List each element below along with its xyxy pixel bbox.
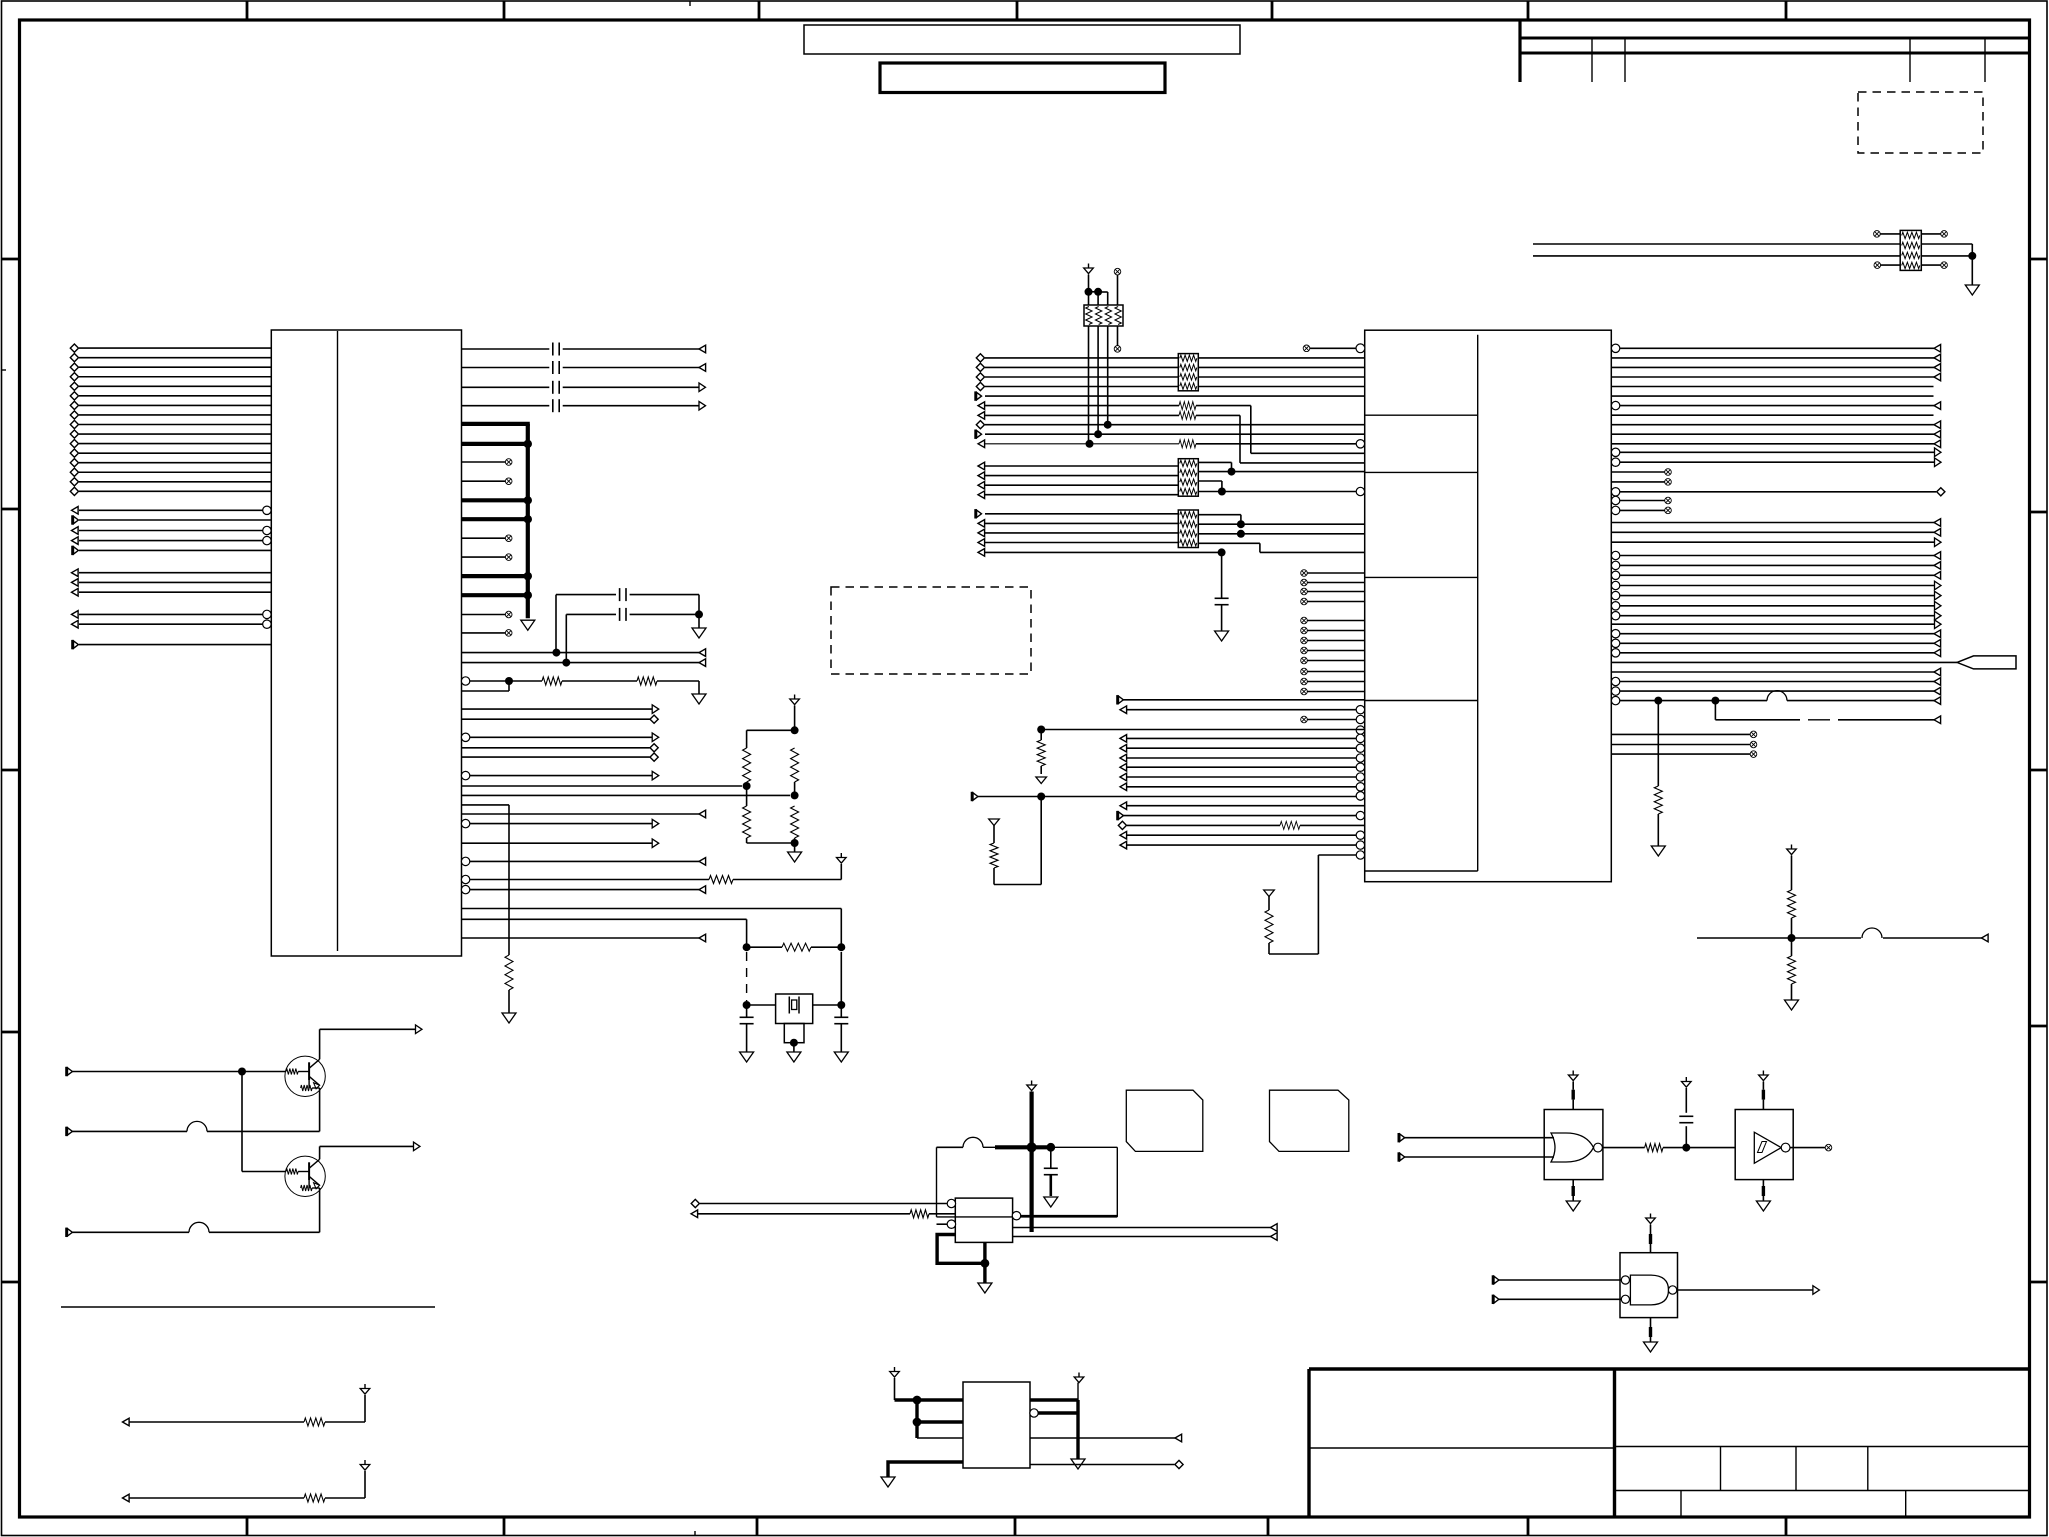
pin terminal bbox=[72, 611, 79, 619]
power pin stub thick bbox=[462, 574, 530, 578]
wire pull up bbox=[364, 1471, 366, 1498]
junction bbox=[1682, 1144, 1690, 1152]
ground arrow bbox=[502, 1013, 516, 1023]
inverting pin bubble bbox=[263, 506, 271, 514]
title block TR hline 1 bbox=[1520, 37, 2030, 40]
junction bbox=[743, 943, 751, 951]
net tag pennant bbox=[1957, 656, 2016, 669]
wire U1 left pin bbox=[79, 395, 271, 397]
ground bbox=[692, 628, 706, 638]
wire U1 right pin bbox=[462, 480, 506, 482]
power arrow bbox=[890, 1367, 900, 1377]
wire U2 bus row bbox=[985, 475, 1178, 477]
pin terminal bbox=[72, 507, 79, 515]
wire term bottom bbox=[747, 842, 795, 844]
title block bot v1 bbox=[1680, 1491, 1682, 1518]
pin terminal bbox=[978, 549, 985, 557]
IC U2 section divider bbox=[1365, 414, 1478, 416]
resistor bbox=[743, 748, 751, 782]
wire dogleg right b bbox=[1838, 719, 1941, 721]
pin terminal diamond bbox=[70, 344, 78, 352]
capacitor load bbox=[740, 1017, 754, 1023]
pin terminal bbox=[1982, 934, 1989, 942]
power bus thick h bbox=[995, 1145, 1053, 1149]
wire U1 right pin bbox=[462, 556, 506, 558]
junction bbox=[1037, 793, 1045, 801]
inverting pin bubble bbox=[1356, 344, 1365, 353]
resistor bbox=[1265, 910, 1273, 943]
wire u3 in1 bbox=[700, 1203, 952, 1205]
wire rp4 o4 bbox=[1198, 542, 1260, 544]
junction bbox=[743, 1001, 751, 1009]
power arrow bbox=[1084, 264, 1094, 274]
wire U1 left pin bbox=[79, 366, 271, 368]
net arrow down bbox=[1036, 777, 1047, 784]
wire U1 left pin bbox=[79, 572, 271, 574]
wire U2 right long bbox=[1620, 451, 1935, 453]
IC U2 box bbox=[1365, 330, 1612, 882]
resistor feedback bbox=[782, 943, 811, 951]
junction bbox=[1237, 530, 1245, 538]
wire U1 left pin bbox=[79, 540, 267, 542]
junction bbox=[1711, 697, 1719, 705]
wire U2 bus row bbox=[985, 484, 1178, 486]
pin terminal bbox=[691, 1210, 698, 1218]
wire U2 bl pin bbox=[1127, 844, 1357, 846]
capacitor load bbox=[834, 1017, 848, 1023]
pin terminal diamond bbox=[70, 487, 78, 495]
wire rp5 p1 bbox=[1880, 233, 1900, 235]
pin terminal bbox=[1120, 754, 1127, 762]
wire U2 bus row b bbox=[1198, 386, 1364, 388]
wire rp4 o3 bbox=[1198, 533, 1241, 535]
wire u6 gnd a bbox=[1762, 1180, 1764, 1186]
ground bbox=[521, 620, 535, 630]
wire u7 gnd b bbox=[1650, 1337, 1652, 1342]
wire q1 coll up bbox=[319, 1029, 321, 1059]
wire u3 gnd stem bbox=[983, 1263, 986, 1283]
wire U2 right long bbox=[1611, 366, 1941, 368]
wire net796 long bbox=[978, 796, 1357, 798]
wire U1 left pin bbox=[79, 462, 271, 464]
title block right h2 bbox=[1615, 1490, 2031, 1492]
wire stub bbox=[1307, 691, 1365, 693]
pin terminal bbox=[1934, 678, 1941, 686]
capacitor bbox=[1215, 598, 1229, 604]
wire xtal left bbox=[747, 1004, 776, 1006]
power arrow bbox=[1568, 1071, 1578, 1081]
pin terminal bbox=[123, 1494, 130, 1502]
zone tick top bbox=[1271, 1, 1274, 20]
pin terminal bbox=[978, 539, 985, 547]
inverting pin bubble bbox=[1611, 612, 1619, 620]
title block bot v2 bbox=[1905, 1491, 1907, 1518]
inverting pin bubble bbox=[1611, 591, 1619, 599]
wire U2 right long bbox=[1611, 443, 1941, 445]
wire pulldown drop bbox=[1657, 701, 1659, 786]
junction thick bbox=[913, 1418, 922, 1427]
resistor bbox=[1280, 821, 1300, 829]
pin terminal bbox=[1934, 562, 1941, 570]
inverting pin bubble bbox=[1356, 792, 1364, 800]
wire U2 right stub bbox=[1611, 733, 1750, 735]
no-connect x-circle bbox=[1825, 1144, 1832, 1151]
title block mid v1 bbox=[1720, 1447, 1722, 1491]
resistor bbox=[304, 1494, 325, 1502]
inverting pin bubble bbox=[1611, 344, 1619, 352]
wire u4 vcc2 stem bbox=[1077, 1383, 1079, 1400]
zone tick top bbox=[758, 1, 761, 20]
wire U1 row681 c bbox=[657, 680, 699, 682]
wire net729 resdrop2 bbox=[1040, 766, 1042, 774]
power bus thick bbox=[1029, 1092, 1033, 1233]
wire rn1 jog bbox=[1098, 291, 1108, 293]
pin terminal bbox=[978, 481, 985, 489]
wire rp5 row2 bbox=[1533, 243, 1900, 245]
pin terminal diamond bbox=[70, 363, 78, 371]
pin terminal bbox=[1934, 529, 1941, 537]
no-connect x-circle bbox=[1665, 507, 1672, 514]
gate U7 box bbox=[1620, 1253, 1678, 1318]
wire net796 drop bbox=[1040, 797, 1042, 885]
inverting pin bubble bbox=[1611, 630, 1619, 638]
wire U2 right long bbox=[1620, 491, 1937, 493]
box outline right bbox=[1116, 1147, 1118, 1217]
pin terminal diamond bbox=[70, 401, 78, 409]
no-connect x-circle bbox=[1301, 588, 1308, 595]
pin terminal bbox=[73, 640, 79, 649]
title block TR vline d bbox=[1984, 38, 1986, 82]
ground bbox=[692, 694, 706, 704]
inverting pin bubble bbox=[1356, 734, 1364, 742]
junction bbox=[505, 677, 513, 685]
inverting pin bubble bbox=[1611, 458, 1619, 466]
inverting pin bubble bbox=[263, 610, 271, 618]
wire u4 p2 thick bbox=[917, 1420, 963, 1423]
wire U1 right pin bbox=[462, 632, 506, 634]
pin terminal bbox=[73, 546, 79, 555]
pin terminal diamond bbox=[70, 382, 78, 390]
capacitor bbox=[1044, 1168, 1058, 1174]
ground bbox=[1644, 1342, 1658, 1352]
wire rn1 d4 bbox=[1117, 326, 1119, 346]
wire net729 resdrop bbox=[1040, 730, 1042, 741]
wire rp3 o3 jog bbox=[1221, 481, 1223, 492]
resistor bbox=[505, 955, 513, 990]
wire U2 row855 left bbox=[1269, 953, 1318, 955]
pin terminal bbox=[976, 430, 982, 439]
zone tick right bbox=[2030, 1025, 2047, 1028]
IC U4 box bbox=[963, 1382, 1030, 1468]
wire net796 up2 bbox=[993, 833, 995, 844]
capacitor series bbox=[553, 399, 559, 412]
no-connect x-circle bbox=[1303, 345, 1310, 352]
wire vcc stem bbox=[794, 706, 796, 731]
resistor network RP4 bbox=[1178, 510, 1198, 548]
wire U2 row396 bbox=[985, 395, 1365, 397]
net arrow down bbox=[1264, 890, 1275, 897]
zone tick right bbox=[2030, 1281, 2047, 1284]
ground bbox=[787, 1052, 801, 1062]
wire term l4 bbox=[746, 838, 748, 843]
resistor bbox=[304, 1418, 325, 1426]
pin terminal bbox=[699, 649, 706, 657]
wire U2 right long bbox=[1620, 405, 1942, 407]
wire rn1 link bbox=[1089, 291, 1099, 293]
wire U1 row879 a bbox=[470, 879, 710, 881]
pin terminal bbox=[72, 537, 79, 545]
zone tick left bbox=[2, 1281, 20, 1284]
wire U1 left pin bbox=[79, 443, 271, 445]
pin terminal bbox=[699, 383, 706, 392]
connector outline B bbox=[1270, 1090, 1349, 1151]
wire term gnd stem bbox=[794, 843, 796, 852]
wire U2 bus row bbox=[985, 366, 1178, 368]
wire U1 right pin bbox=[462, 747, 650, 749]
wire stub bbox=[1307, 572, 1365, 574]
title block mid v2 bbox=[1795, 1447, 1797, 1491]
title block TR vline c bbox=[1909, 38, 1911, 82]
junction bbox=[791, 726, 799, 734]
wire U1 left pin bbox=[79, 644, 271, 646]
wire div row b bbox=[1883, 937, 1989, 939]
wire xtal osc2 bbox=[462, 918, 747, 920]
pin terminal bbox=[652, 733, 659, 742]
dashed box center bbox=[831, 587, 1031, 674]
pin terminal bbox=[976, 509, 982, 518]
wire stub bbox=[1307, 630, 1365, 632]
junction thick bbox=[981, 1259, 990, 1268]
no-connect x-circle bbox=[1301, 716, 1308, 723]
pin terminal bbox=[978, 440, 985, 448]
wire stub bbox=[1307, 620, 1365, 622]
junction bbox=[791, 791, 799, 799]
wire U2 right long bbox=[1620, 564, 1942, 566]
ground bbox=[881, 1477, 895, 1487]
wire rp3 o2 bbox=[1198, 471, 1364, 473]
IC U2 section divider bbox=[1365, 700, 1478, 702]
wire U1 right pin bbox=[470, 775, 653, 777]
no-connect x-circle bbox=[505, 535, 512, 542]
wire u3 out3 bbox=[1013, 1236, 1271, 1238]
zone tick bottom bbox=[1267, 1517, 1270, 1536]
zone tick top bbox=[503, 1, 506, 20]
zone tick right bbox=[2030, 511, 2047, 514]
wire U2 right long bbox=[1620, 595, 1935, 597]
inverting pin bubble bbox=[1611, 581, 1619, 589]
resistor network RP3 bbox=[1178, 459, 1198, 497]
pin terminal bbox=[978, 491, 985, 499]
pin terminal bbox=[1118, 695, 1124, 704]
pin terminal bbox=[699, 934, 706, 942]
wire term r2 bbox=[794, 782, 796, 795]
zone tick bottom bbox=[503, 1517, 506, 1536]
wire U2 right long bbox=[1620, 652, 1942, 654]
no-connect x-circle bbox=[1301, 668, 1308, 675]
title block TR vline b bbox=[1624, 38, 1626, 82]
pin terminal bbox=[123, 1418, 130, 1426]
wire u5 out b bbox=[1663, 1147, 1735, 1149]
wire U2 right long bbox=[1620, 690, 1942, 692]
pin terminal diamond bbox=[976, 421, 984, 429]
power arrow bbox=[360, 1460, 370, 1470]
pin terminal bbox=[978, 520, 985, 528]
capacitor series bbox=[553, 381, 559, 394]
power stub thick bbox=[1649, 1234, 1652, 1244]
wire cap l1 bbox=[746, 1005, 748, 1017]
title block TR hline 2 bbox=[1520, 52, 2030, 55]
title block divider bbox=[1613, 1369, 1616, 1517]
wire U2 row443 a bbox=[985, 443, 1179, 445]
wire U2 right stub bbox=[1620, 500, 1666, 502]
inverting pin bubble bbox=[1356, 763, 1364, 771]
pin terminal bbox=[1120, 773, 1127, 781]
wire U1 row652 bbox=[462, 652, 707, 654]
power arrow bbox=[1074, 1373, 1084, 1383]
pin terminal bbox=[1934, 421, 1941, 429]
inverting pin bubble bbox=[461, 733, 469, 741]
wire u7 vcc b bbox=[1650, 1244, 1652, 1253]
wire cap net upper b bbox=[630, 594, 699, 596]
wire rp3 o1 jog bbox=[1231, 462, 1233, 471]
wire U2 right long bbox=[1611, 661, 1957, 663]
junction bbox=[790, 1039, 798, 1047]
zone half-tick top bbox=[689, 1, 691, 6]
wire xtal net B bbox=[462, 794, 791, 796]
wire U2 right long bbox=[1620, 585, 1935, 587]
wire hop bbox=[187, 1121, 207, 1131]
wire U2 bus row bbox=[985, 357, 1178, 359]
wire U1 cap row b bbox=[563, 367, 699, 369]
junction bbox=[695, 610, 703, 618]
wire rp4 o4 jog bbox=[1259, 543, 1261, 552]
wire u5 out bbox=[1602, 1147, 1644, 1149]
junction bbox=[1104, 421, 1112, 429]
pin terminal bbox=[1934, 572, 1941, 580]
resistor bbox=[1654, 786, 1662, 814]
inverting pin bubble bbox=[1356, 744, 1364, 752]
pin terminal bbox=[652, 839, 659, 848]
pin terminal diamond bbox=[70, 459, 78, 467]
wire u4 o3 bbox=[1030, 1437, 1175, 1439]
junction thick bbox=[1046, 1143, 1055, 1152]
power arrow bbox=[1646, 1214, 1656, 1224]
wire u4 p1 thick bbox=[895, 1398, 964, 1401]
wire U2 right stub bbox=[1611, 753, 1750, 755]
wire U2 bus row b bbox=[1198, 366, 1364, 368]
capacitor series bbox=[620, 608, 626, 621]
wire U1 right pin bbox=[462, 813, 700, 815]
inverting pin bubble bbox=[461, 771, 469, 779]
wire U2 right stub bbox=[1611, 481, 1665, 483]
ground bbox=[1785, 1000, 1799, 1010]
wire u7 in1 bbox=[1499, 1279, 1622, 1281]
wire stub bbox=[1307, 660, 1365, 662]
wire U1 cap row b bbox=[563, 386, 699, 388]
wire rn1 stub2 bbox=[1097, 292, 1099, 305]
pin terminal bbox=[1120, 706, 1127, 714]
zone tick bottom bbox=[1785, 1517, 1788, 1536]
wire pull row a bbox=[130, 1497, 305, 1499]
no-connect x-circle bbox=[1301, 688, 1308, 695]
wire u7 out bbox=[1677, 1289, 1813, 1291]
wire U2 bus row bbox=[985, 494, 1178, 496]
wire net796 left bbox=[994, 884, 1041, 886]
wire U2 right long bbox=[1611, 433, 1941, 435]
wire U2 bl pin a bbox=[1127, 824, 1280, 826]
wire U1 left pin bbox=[79, 424, 271, 426]
inverting pin bubble bbox=[1611, 448, 1619, 456]
wire U1 row705 bbox=[462, 708, 653, 710]
crystal Y1 bbox=[776, 994, 813, 1043]
wire U2 row405 b bbox=[1196, 405, 1251, 407]
pin terminal diamond bbox=[1937, 488, 1945, 496]
pin terminal bbox=[1934, 716, 1941, 724]
wire rp3 o4 bbox=[1198, 491, 1356, 493]
pin terminal diamond bbox=[976, 363, 984, 371]
pin terminal bbox=[1935, 611, 1942, 620]
title block left edge bbox=[1307, 1369, 1310, 1517]
no-connect x-circle bbox=[1114, 268, 1121, 275]
wire rp5 row3 bbox=[1533, 255, 1900, 257]
wire stub bbox=[1307, 681, 1365, 683]
no-connect x-circle bbox=[1301, 637, 1308, 644]
wire cap r2 bbox=[840, 1024, 842, 1052]
power arrow bbox=[790, 695, 800, 705]
wire rp4 o2 bbox=[1198, 523, 1364, 525]
pin terminal bbox=[1934, 354, 1941, 362]
ground bbox=[1215, 631, 1229, 641]
wire q2 base bbox=[242, 1171, 286, 1173]
wire U2 right long bbox=[1611, 531, 1941, 533]
zone tick left bbox=[2, 1031, 20, 1034]
pin terminal bbox=[1120, 802, 1127, 810]
pin terminal bbox=[1935, 602, 1942, 611]
IC U2 divider bbox=[1477, 335, 1479, 871]
wire U1 cap row a bbox=[462, 386, 550, 388]
pin terminal bbox=[978, 402, 985, 410]
junction thick bbox=[913, 1396, 922, 1405]
resistor bbox=[637, 677, 657, 685]
power stub thick bbox=[1571, 1090, 1574, 1100]
power pin stub thick bbox=[462, 517, 530, 521]
pin terminal bbox=[1935, 591, 1942, 600]
title block right h1 bbox=[1615, 1446, 2031, 1448]
transistor Q1 (digital) bbox=[285, 1056, 325, 1096]
zone tick left bbox=[2, 508, 20, 511]
net arrow down bbox=[989, 819, 1000, 826]
wire cap net lower b bbox=[630, 613, 699, 615]
pin terminal bbox=[1120, 763, 1127, 771]
zone half-tick left bbox=[2, 369, 7, 371]
wire dogleg down bbox=[1714, 701, 1716, 720]
zone tick top bbox=[1785, 1, 1788, 20]
wire U2 right long bbox=[1620, 555, 1942, 557]
capacitor series bbox=[553, 361, 559, 374]
pin terminal bbox=[976, 391, 982, 400]
junction bbox=[1037, 726, 1045, 734]
pin terminal diamond bbox=[650, 744, 658, 752]
junction bbox=[837, 1001, 845, 1009]
wire U1 left pin bbox=[79, 433, 271, 435]
zone tick top bbox=[1527, 1, 1530, 20]
power arrow bbox=[1787, 845, 1797, 855]
wire U1 cap row a bbox=[462, 348, 550, 350]
wire u7 vcc a bbox=[1650, 1225, 1652, 1235]
wire U1 left pin bbox=[79, 530, 267, 532]
wire U2 row415 a bbox=[985, 414, 1179, 416]
junction thick bbox=[1027, 1142, 1037, 1152]
